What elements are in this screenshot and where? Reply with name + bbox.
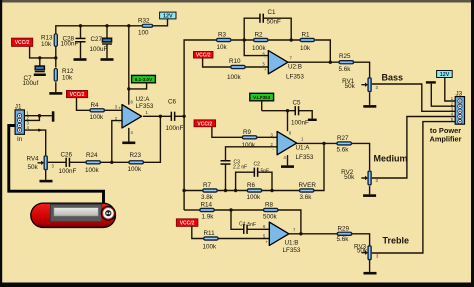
wire: J1 pin2 link [24, 116, 39, 121]
svg-text:R27: R27 [337, 135, 349, 142]
VCC/2 label 3 [193, 51, 213, 58]
svg-text:VCC/2: VCC/2 [196, 53, 211, 59]
svg-text:Bass: Bass [382, 72, 404, 82]
svg-text:100uf: 100uf [23, 80, 39, 87]
ground under C27 [101, 58, 114, 61]
svg-text:R8: R8 [265, 202, 274, 209]
resistor R24 100k [85, 152, 101, 174]
svg-text:R1: R1 [302, 32, 311, 39]
svg-text:100nF: 100nF [59, 168, 77, 175]
resistor R11 100k [203, 230, 219, 250]
svg-text:5.6k: 5.6k [337, 236, 350, 243]
resistor R9 100k [242, 129, 258, 149]
wire: RV1 bottom to ground [369, 92, 371, 105]
svg-text:R4: R4 [91, 102, 100, 109]
wire: RV2 wiper to J3 pin4 [372, 117, 455, 179]
svg-text:100: 100 [138, 30, 149, 37]
wire: R1 right down to U2:B output [315, 40, 330, 62]
to Power Amplifier label [429, 126, 461, 144]
capacitor C5 100nF [291, 100, 309, 127]
J1 pin4 arrow [38, 129, 42, 132]
resistor R6 100k [247, 182, 263, 201]
svg-text:50k: 50k [28, 164, 39, 171]
svg-text:10k: 10k [300, 45, 311, 52]
wire: R23 right up to U2:A output [144, 116, 161, 162]
wire: probe A stem [129, 83, 147, 89]
svg-text:R32: R32 [138, 18, 150, 25]
svg-text:R14: R14 [201, 202, 213, 209]
capacitor C27 100uF electrolytic [90, 36, 113, 53]
wire: probe B stem [261, 101, 263, 111]
svg-text:LF353: LF353 [136, 103, 154, 110]
wire: C7 branch [39, 58, 41, 66]
wire: C6 to input bus [175, 115, 185, 117]
capacitor C26 100nF [59, 152, 77, 175]
wire: VCC/2 #4 stub to R9 [212, 127, 242, 138]
capacitor C2 5nF [254, 162, 270, 177]
svg-text:3.8k: 3.8k [201, 194, 214, 201]
wire: U2:A pin4 to ground [128, 128, 130, 142]
svg-text:C5: C5 [293, 100, 302, 107]
wire: R25 to RV1 top [354, 62, 370, 77]
wire: R3 to R2 with feedback tap [232, 39, 253, 41]
wire: R14 to R8 [215, 209, 263, 211]
wire: RV3 wiper to J3 pin5 [372, 122, 455, 253]
svg-text:LF353: LF353 [283, 247, 301, 254]
svg-text:R3: R3 [218, 32, 227, 39]
wire: R29 to RV3 top [352, 234, 370, 246]
capacitor C28 100nF [61, 35, 86, 47]
ground under RV1 [363, 105, 376, 108]
svg-text:C2: C2 [254, 162, 261, 168]
svg-text:5.6k: 5.6k [339, 66, 352, 73]
resistor R8 500k [263, 202, 279, 221]
svg-text:12V: 12V [440, 72, 450, 78]
wire: U2:B output to R25 [287, 61, 339, 63]
svg-text:In: In [17, 136, 23, 143]
connector J1 [15, 103, 30, 143]
resistor R4 100k [89, 102, 105, 121]
resistor R25 5.6k [338, 53, 354, 73]
wire: U2:A V+ from rail [128, 26, 130, 105]
resistor R1 10k [299, 32, 315, 52]
svg-text:J1: J1 [15, 103, 22, 110]
svg-text:R2: R2 [255, 32, 264, 39]
resistor R23 100k [128, 152, 145, 173]
svg-text:R24: R24 [86, 152, 98, 159]
svg-text:VCC/2: VCC/2 [180, 221, 195, 227]
wire: C4 branch from R14/R8 node [231, 210, 269, 229]
wire: R9 to U1:A pin3 [257, 136, 277, 138]
potentiometer RV3 50k [354, 244, 379, 261]
op-amp U2:B [263, 51, 305, 81]
svg-text:100k: 100k [247, 194, 262, 201]
capacitor C4 5nF [239, 221, 256, 234]
wire: VCC/2 #3 stub to R10 [203, 58, 231, 67]
wire: U1:A pin2 feedback to C3 [226, 147, 278, 161]
VCC/2 label 4 [194, 120, 216, 128]
svg-text:LF353: LF353 [286, 74, 304, 81]
capacitor C1 50nF [259, 9, 281, 26]
svg-text:100nF: 100nF [61, 41, 79, 48]
svg-text:R6: R6 [247, 182, 256, 189]
wire: C5 to ground stem [298, 111, 312, 119]
svg-text:VCC/2: VCC/2 [15, 40, 30, 46]
svg-text:C1: C1 [268, 9, 277, 16]
svg-text:10k: 10k [41, 41, 52, 48]
svg-text:100k: 100k [203, 243, 218, 250]
resistor R3 10k [216, 32, 232, 51]
svg-text:R25: R25 [339, 53, 351, 60]
svg-text:U1:B: U1:B [285, 239, 299, 246]
wire: VCC/2 #5 stub to R11 [192, 226, 204, 238]
svg-text:10k: 10k [217, 44, 228, 51]
wire: R27 to RV2 top [352, 143, 370, 170]
svg-text:100k: 100k [85, 167, 100, 174]
svg-text:U1:A: U1:A [296, 144, 311, 151]
svg-text:C26: C26 [61, 152, 73, 159]
wire: 12V #2 stub to J3 pin1 [445, 78, 455, 102]
wire: C3 bottom to mid row [225, 164, 227, 190]
svg-text:3.6k: 3.6k [300, 194, 313, 201]
svg-text:C27: C27 [91, 36, 103, 43]
wire: gnd bar to J3 pin2 [431, 84, 455, 107]
wire: C28 branch [80, 26, 82, 59]
resistor RVER 3.6k [299, 182, 317, 201]
wire: input distribution bus [184, 40, 216, 210]
wire: C2 parallel loop [236, 172, 272, 190]
ground under R12 [49, 92, 62, 95]
op-amp U1:B [263, 222, 301, 254]
wire: R24 to junction to R23 [101, 161, 129, 163]
probe A green label [132, 75, 156, 82]
wire: top 12V rail [56, 19, 168, 34]
wire: mid row bus to R7 [184, 190, 202, 192]
wire: U2:A pin2 from feedback node [112, 121, 122, 163]
resistor R13 10k [41, 33, 58, 48]
svg-text:R10: R10 [229, 58, 241, 65]
ground at C5 [308, 119, 317, 121]
svg-text:5nF: 5nF [248, 222, 257, 228]
op-amp U1:A [271, 130, 314, 161]
svg-text:LF353: LF353 [296, 154, 314, 161]
svg-text:100k: 100k [227, 74, 242, 81]
svg-text:100nF: 100nF [291, 120, 309, 127]
J1 shield bar [52, 111, 55, 121]
12V label right [437, 71, 453, 79]
svg-text:R23: R23 [130, 152, 142, 159]
wire: VCC/2 #2 stub to R4 [77, 98, 90, 111]
capacitor C7 100uF electrolytic [23, 66, 46, 87]
svg-text:500k: 500k [263, 213, 278, 220]
12V label top [160, 12, 176, 19]
wire: U1:A output row to R27 [296, 142, 337, 144]
svg-text:Amplifier: Amplifier [429, 135, 461, 144]
resistor R32 100 [138, 18, 153, 37]
svg-text:J3: J3 [456, 90, 463, 97]
wire: R7 to C3 node to C2 node to R6 [218, 190, 247, 192]
svg-text:RV4: RV4 [27, 156, 40, 163]
ground under U1:A pin4 [281, 165, 294, 168]
wire: RV4 wiper to C26 [48, 161, 66, 163]
wire: RV2 bottom to ground [369, 186, 371, 194]
svg-text:12V: 12V [163, 14, 173, 20]
resistor R29 5.6k [337, 225, 353, 243]
svg-text:5nF: 5nF [261, 169, 270, 175]
wire: U2:A output to C6 [143, 115, 171, 117]
wire: RVER right up to U1:A output [314, 143, 324, 190]
wire: R10 to U2:B pin5 [245, 66, 268, 68]
wire: J1 pin4 down to RV4 [24, 130, 45, 155]
wire: C26 to R24 [69, 161, 85, 163]
wire: C27 branch [106, 26, 108, 59]
svg-text:100uF: 100uF [90, 46, 108, 53]
svg-text:50k: 50k [344, 174, 355, 181]
capacitor C6 100nF [166, 99, 184, 133]
thick audio cable [9, 126, 104, 205]
ground under RV2 [363, 194, 376, 197]
wire: R4 to U2:A pin3 [105, 109, 122, 111]
VCC/2 label 1 [12, 38, 33, 46]
wire: V+ node to C5 [262, 110, 296, 112]
svg-text:Treble: Treble [383, 235, 410, 245]
probe B green label [250, 93, 274, 101]
wire: U1:A pin4 to ground [287, 155, 289, 165]
wire: R13 bottom to R12 top [55, 46, 57, 92]
resistor R7 3.8k [201, 182, 218, 201]
svg-text:10k: 10k [62, 75, 73, 82]
wire: J1 pin1 to shield bar [24, 115, 51, 117]
svg-text:50k: 50k [345, 83, 356, 90]
wire: RV1 wiper to J3 pin3 [372, 84, 455, 111]
svg-text:C4: C4 [239, 221, 246, 227]
capacitor C3 2.2nF [221, 160, 248, 171]
svg-text:R9: R9 [243, 129, 252, 136]
VCC/2 label 2 [66, 90, 87, 98]
connector J3 [451, 90, 465, 124]
wire: U1:A V+ stem [287, 111, 289, 132]
svg-text:V.LF353: V.LF353 [253, 95, 271, 100]
svg-text:U2:B: U2:B [288, 64, 302, 71]
svg-text:100k: 100k [242, 142, 257, 149]
VCC/2 label 5 [176, 219, 198, 227]
ground under RV3 [364, 272, 377, 275]
wire: R11 to U1:B pin5 [218, 238, 269, 240]
wire: U1:B output to R29 [289, 233, 337, 235]
svg-text:RVER: RVER [299, 182, 317, 189]
svg-text:5.6k: 5.6k [337, 146, 350, 153]
border frame [0, 0, 474, 3]
svg-text:1.9k: 1.9k [202, 213, 215, 220]
ground under U2:A pin4 [122, 142, 135, 145]
wire: RV3 bottom to ground [369, 260, 371, 272]
potentiometer RV4 50k [27, 155, 55, 171]
svg-text:R7: R7 [203, 182, 212, 189]
ground under RV4 [40, 180, 53, 183]
svg-text:6.1-3.0V: 6.1-3.0V [135, 77, 153, 82]
svg-text:VCC/2: VCC/2 [197, 121, 212, 127]
wire: R6 to RVER [262, 190, 299, 192]
resistor R12 10k [54, 68, 74, 82]
svg-text:R11: R11 [204, 230, 216, 237]
resistor R2 100k [252, 32, 269, 52]
ground bar near J3 [426, 81, 436, 83]
svg-text:100k: 100k [90, 114, 105, 121]
ground under C28 [74, 58, 87, 61]
wire: R8 right down to U1:B output [278, 210, 301, 234]
wire: bass feedback left vertical [244, 18, 268, 55]
svg-text:50nF: 50nF [267, 19, 282, 26]
potentiometer RV1 50k [342, 77, 378, 92]
wire: R2 to R1 with C1 tap [269, 39, 300, 41]
svg-text:R29: R29 [338, 225, 350, 232]
svg-text:50k: 50k [357, 247, 368, 254]
resistor R14 1.9k [199, 202, 215, 221]
svg-text:100nF: 100nF [166, 125, 184, 132]
svg-text:Medium: Medium [374, 153, 408, 163]
svg-text:100k: 100k [128, 166, 143, 173]
svg-text:C6: C6 [168, 99, 177, 106]
potentiometer RV2 50k [341, 169, 378, 185]
svg-text:VCC/2: VCC/2 [70, 92, 85, 98]
wire: RV4 bottom to ground [45, 170, 47, 180]
wire: VCC/2 #1 stub to R13/R12 node [30, 46, 56, 58]
wire: bus to R14 [184, 209, 199, 211]
op-amp U2:A [115, 96, 154, 135]
resistor R10 100k [227, 58, 246, 81]
wire: C1 right to R2/R1 junction [263, 18, 291, 40]
MP3 player [31, 203, 116, 227]
svg-text:2.2 nF: 2.2 nF [233, 165, 247, 171]
resistor R27 5.6k [336, 135, 352, 154]
